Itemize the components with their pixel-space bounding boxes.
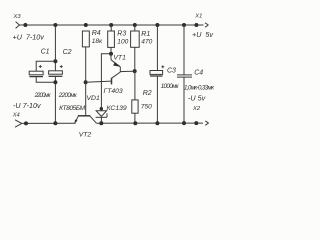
node R3 top bbox=[109, 23, 113, 27]
svg-text:КС139: КС139 bbox=[107, 105, 127, 112]
svg-text:C3: C3 bbox=[167, 67, 176, 74]
connector X4 bbox=[12, 113, 22, 128]
svg-text:КТ805БМ: КТ805БМ bbox=[59, 105, 86, 112]
node C3 bottom bbox=[155, 121, 159, 125]
connector X2 bbox=[192, 106, 209, 125]
svg-text:C2: C2 bbox=[63, 49, 72, 56]
svg-text:-U 7-10v: -U 7-10v bbox=[13, 101, 41, 110]
capacitor C1 bbox=[29, 49, 51, 99]
svg-text:R3: R3 bbox=[117, 30, 126, 37]
svg-text:+U 7-10v: +U 7-10v bbox=[13, 33, 45, 42]
node VD1 bottom bbox=[99, 121, 103, 125]
node C1 branch bbox=[53, 59, 57, 63]
capacitor C4 bbox=[177, 69, 215, 91]
svg-text:X1: X1 bbox=[194, 14, 202, 20]
svg-text:X3: X3 bbox=[13, 14, 22, 20]
wire C1 jog lower bbox=[36, 77, 55, 83]
svg-text:2200мк: 2200мк bbox=[34, 92, 52, 99]
node C2 bottom bbox=[53, 121, 57, 125]
node C1-C2 top bbox=[53, 23, 57, 27]
wire VT1 collector bbox=[120, 70, 134, 72]
svg-text:-U 5v: -U 5v bbox=[188, 94, 206, 103]
node R1 top bbox=[133, 23, 137, 27]
resistor R4 bbox=[82, 30, 103, 47]
node X4 terminal bbox=[24, 121, 28, 125]
node C4 top bbox=[182, 23, 186, 27]
svg-text:100: 100 bbox=[117, 38, 128, 45]
transistor VT1 bbox=[104, 54, 127, 95]
svg-text:2200мк: 2200мк bbox=[58, 92, 78, 99]
wire C4 leads bbox=[183, 25, 185, 75]
svg-text:1,0мк-0,33мк: 1,0мк-0,33мк bbox=[184, 85, 215, 92]
svg-text:VT1: VT1 bbox=[113, 54, 126, 61]
svg-text:C1: C1 bbox=[41, 49, 50, 56]
resistor R1 bbox=[131, 31, 153, 47]
svg-text:+U 5v: +U 5v bbox=[192, 30, 213, 39]
wire C1/C2 feed bbox=[54, 25, 56, 71]
wire C3 leads bbox=[156, 25, 158, 71]
svg-text:C4: C4 bbox=[194, 69, 203, 76]
node R3 bottom bbox=[109, 52, 113, 56]
node C1-C2 join bbox=[53, 80, 57, 84]
svg-text:VD1: VD1 bbox=[87, 95, 100, 102]
wire R1 leads bbox=[134, 25, 136, 31]
transistor VT2 bbox=[59, 105, 96, 139]
wire bottom rail left bbox=[22, 122, 76, 124]
wire R4 to VT2 base bbox=[85, 47, 87, 116]
node C3 top bbox=[155, 23, 159, 27]
svg-text:X2: X2 bbox=[192, 106, 201, 112]
node X3 terminal bbox=[23, 23, 27, 27]
svg-text:750: 750 bbox=[141, 103, 152, 110]
svg-text:470: 470 bbox=[141, 38, 152, 45]
wire jog to VD1 bbox=[101, 54, 111, 111]
node R4 bottom bbox=[84, 80, 88, 84]
resistor R2 bbox=[132, 90, 152, 113]
svg-text:R1: R1 bbox=[141, 31, 150, 38]
node C4 bottom bbox=[182, 121, 186, 125]
svg-text:VT2: VT2 bbox=[79, 132, 92, 139]
svg-text:ГТ403: ГТ403 bbox=[104, 88, 123, 95]
resistor R3 bbox=[108, 30, 129, 47]
wire R3 leads bbox=[110, 25, 112, 31]
node R1 bottom bbox=[133, 69, 137, 73]
wire VT1 base lead bbox=[86, 81, 112, 82]
wire C2 bottom lead bbox=[54, 76, 56, 123]
wire top rail bbox=[19, 24, 203, 26]
capacitor C2 bbox=[49, 49, 78, 99]
wire C1 jog upper bbox=[36, 61, 55, 71]
connector X3 bbox=[13, 14, 22, 28]
capacitor C3 bbox=[150, 65, 180, 90]
connector X1 bbox=[194, 14, 208, 28]
svg-text:R4: R4 bbox=[92, 30, 101, 37]
svg-text:18к: 18к bbox=[92, 38, 103, 45]
svg-text:X4: X4 bbox=[12, 113, 20, 119]
svg-text:R2: R2 bbox=[143, 90, 152, 97]
wire R2 leads bbox=[134, 71, 136, 100]
node R4 top bbox=[84, 23, 88, 27]
wire bottom rail right bbox=[96, 122, 203, 124]
svg-text:1000мк: 1000мк bbox=[161, 83, 180, 90]
node R2 bottom bbox=[133, 121, 137, 125]
zener diode VD1 bbox=[87, 95, 127, 124]
